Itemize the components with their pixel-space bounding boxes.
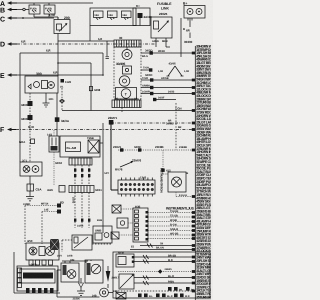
wire cluster drop — [121, 108, 123, 113]
wire drop to E — [102, 53, 104, 75]
wire nym rows — [134, 254, 195, 263]
gauge G3 temp — [116, 88, 137, 100]
connector side pins — [18, 268, 22, 288]
wire feed left — [20, 49, 103, 54]
instrument connector block — [118, 176, 155, 197]
TOPLEFT — [0, 1, 136, 111]
label 23M76 — [120, 159, 142, 168]
wire relay right — [100, 123, 109, 233]
label 34/3D — [145, 49, 152, 53]
wire instrument feed — [111, 125, 118, 191]
wire D arrow — [7, 42, 17, 46]
wire to cluster bus — [58, 38, 114, 41]
connector bottom pins — [26, 288, 54, 293]
connector 34/3A — [55, 117, 70, 123]
main connector 34/9 — [17, 262, 58, 291]
frame lines — [14, 252, 60, 293]
wire 7R — [131, 243, 195, 249]
wire dashdot upper — [111, 120, 195, 123]
fuse C5A — [27, 176, 42, 192]
wire dashed bottom — [115, 290, 195, 292]
wire D dashdot — [17, 40, 156, 45]
bulb holder 14/3 — [47, 130, 59, 185]
wire row y99 — [153, 97, 176, 102]
wire B/LGN — [130, 247, 195, 250]
MIDRIGHT — [141, 49, 195, 151]
wire terminals — [192, 52, 196, 293]
BOTTOMLEFT — [14, 197, 112, 293]
destination text column — [196, 45, 228, 300]
wire fuse outputs — [34, 13, 58, 20]
wire dotted branch — [161, 150, 171, 174]
switch module b — [117, 218, 133, 228]
fuse panel box — [90, 8, 136, 41]
connector 34/11 — [47, 186, 102, 193]
CENTER — [20, 93, 195, 233]
wire dotted row last — [148, 237, 195, 240]
switch module a — [112, 205, 133, 213]
relay MFR — [151, 17, 172, 47]
label 6D — [60, 201, 65, 205]
wire row y93 — [141, 90, 195, 95]
wire dashed triple — [74, 165, 90, 186]
connector strip 30 bottom — [112, 98, 141, 108]
wire down to relay — [56, 93, 58, 136]
bottom connector row — [113, 290, 190, 299]
relay KL-AM — [60, 136, 100, 157]
wire E bus — [17, 71, 104, 76]
wire row y80 — [141, 77, 195, 82]
wire photocell rows — [134, 275, 195, 285]
wire branch 63 — [57, 62, 91, 110]
connector 1126 — [60, 79, 72, 89]
label instrument lighting — [166, 207, 195, 211]
wire dotted 14D — [25, 203, 61, 208]
control unit UMB — [93, 219, 112, 243]
indicator box — [123, 66, 132, 74]
connector 3408 — [89, 87, 100, 93]
wire lamp ground dotted — [176, 192, 195, 197]
switch module c — [111, 232, 133, 239]
wire dotted diamond row — [118, 268, 195, 274]
wire F arrow — [7, 128, 16, 132]
fuse F2 — [44, 5, 55, 14]
wire B+ feed — [181, 18, 185, 57]
clock unit 300 — [25, 72, 58, 93]
lamp unit 3/71 — [20, 160, 42, 177]
node D — [0, 42, 5, 49]
wire motor tops — [62, 260, 91, 263]
BOTTOMMID — [57, 235, 120, 300]
node C — [0, 17, 5, 24]
ground 300 — [43, 93, 55, 107]
bus line right — [194, 46, 196, 300]
connector 34/32 — [55, 158, 92, 165]
RIGHTCOL — [192, 45, 229, 300]
gauge G2 — [119, 76, 130, 87]
wire 7GN — [62, 106, 195, 110]
connector GRA — [19, 139, 35, 144]
TOPRIGHT — [133, 2, 205, 58]
wire B to fuse box — [17, 8, 29, 10]
wire dotted row 150 — [113, 145, 195, 152]
ground lamp — [23, 191, 34, 206]
CLUSTER — [112, 36, 141, 112]
photocell sensor — [119, 274, 134, 289]
battery B+ — [183, 2, 205, 21]
washer motor M2 — [85, 260, 103, 283]
wire C bus — [17, 17, 54, 19]
relay box top — [62, 235, 112, 252]
diode symbol — [79, 278, 84, 288]
gauge G1 — [122, 47, 132, 60]
node A — [0, 1, 5, 8]
sensor NYM — [116, 252, 134, 267]
connector 23M71 — [108, 116, 118, 125]
fuse F4 15A — [108, 11, 118, 20]
label 30/3D — [116, 62, 126, 66]
fuse F1 — [29, 5, 40, 14]
wire row y87 — [141, 85, 195, 90]
wire dotted rows to column — [148, 210, 195, 236]
fuse F5 15A — [122, 11, 132, 20]
wire hook connector — [106, 41, 109, 58]
rheostat connector strip — [133, 205, 148, 242]
wire E arrow — [7, 73, 17, 77]
wire B arrow — [7, 8, 17, 12]
wire row y70 — [141, 67, 152, 72]
wire stubs fuse tops — [34, 3, 49, 5]
fuse F3 15A — [94, 11, 104, 20]
wire left vertical — [19, 53, 21, 162]
connector 3400 b — [21, 115, 33, 121]
wire 300 dashed down — [29, 93, 31, 162]
wire A arrow — [7, 1, 17, 5]
node F — [0, 127, 5, 134]
pump motor G — [92, 284, 113, 298]
wire F dashdot — [16, 125, 195, 130]
labels 34/4 — [57, 255, 75, 263]
label vertical instrumentation — [160, 168, 164, 193]
connector 3400 a — [21, 101, 33, 107]
connector box K+ — [133, 4, 152, 26]
lamp +15 — [168, 172, 189, 197]
scan noise overlay — [0, 0, 213, 300]
label 34/3C — [145, 73, 152, 77]
wire row y53 — [141, 50, 195, 58]
ground motor — [73, 288, 86, 300]
label RV76 — [115, 168, 123, 172]
connector pins row — [29, 260, 53, 265]
wire C arrow — [7, 16, 17, 20]
wire dashed 1126 down — [59, 88, 65, 111]
wire 200 down — [57, 34, 59, 77]
ignition block 4/50 — [26, 239, 59, 260]
BOTTOMRIGHT — [111, 205, 210, 299]
label FUSIBLE LINK — [157, 2, 172, 16]
dark module — [50, 239, 59, 250]
MIDLEFT — [0, 40, 195, 186]
fan symbol 43/46 — [158, 62, 189, 77]
pump symbol black — [106, 266, 120, 282]
node E — [0, 73, 5, 80]
instrument cluster box — [114, 47, 141, 99]
column shading — [196, 45, 212, 300]
ignition switch 200 — [54, 16, 70, 34]
wire motor loop — [57, 270, 100, 297]
label 1003 vertical — [72, 197, 76, 204]
wire dotted 14E — [42, 209, 61, 214]
main housing box — [113, 252, 210, 298]
wire dashed triple lower — [74, 193, 90, 229]
wire dashed left border — [24, 206, 26, 245]
label 31/D6 — [77, 225, 84, 228]
wiper motor M1 — [61, 263, 79, 282]
wire dashed 34/6B — [166, 103, 176, 150]
wire dashed inner border — [41, 212, 43, 245]
wire battery down — [184, 18, 193, 44]
wire A bus — [17, 2, 93, 4]
node B — [0, 8, 5, 15]
connector strip 30 top — [114, 36, 141, 47]
upper connector pair row — [168, 287, 195, 292]
